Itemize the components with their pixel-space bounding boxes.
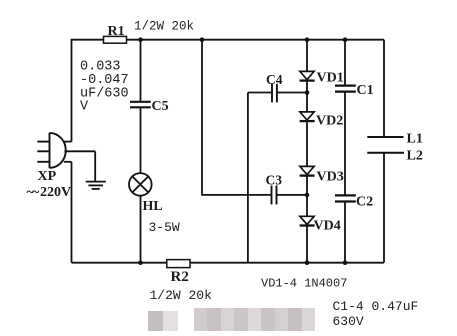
- wire diode chain seg5: [306, 226, 308, 263]
- node VD3-VD4 C3 junction: [305, 193, 310, 198]
- lamp-socket contact L2: [367, 152, 404, 154]
- node bottom C2 junction: [343, 260, 348, 265]
- wire left vertical lower: [71, 162, 73, 263]
- svg-text:C4: C4: [266, 72, 283, 87]
- watermark mosaic strip: [148, 311, 163, 331]
- svg-text:VD1-4 1N4007: VD1-4 1N4007: [261, 277, 347, 291]
- capacitor C2: [335, 195, 356, 201]
- node bottom lamp junction: [138, 260, 143, 265]
- svg-text:L1: L1: [407, 131, 423, 146]
- wire diode chain seg2: [306, 81, 308, 112]
- svg-text:220V: 220V: [40, 185, 71, 200]
- resistor R2: [167, 260, 190, 268]
- wire diode chain seg1: [306, 40, 308, 72]
- wire top bus: [72, 39, 385, 41]
- capacitor C5: [130, 102, 151, 108]
- lamp HL: [129, 173, 152, 196]
- capacitor C4: [272, 84, 277, 103]
- diode VD3: [300, 166, 315, 175]
- svg-text:C1-4 0.47uF: C1-4 0.47uF: [333, 299, 419, 314]
- wire C1 branch upper: [344, 40, 346, 86]
- wire C5 branch upper: [140, 40, 142, 102]
- svg-text:VD2: VD2: [316, 114, 343, 129]
- wire C5 to lamp: [140, 108, 142, 174]
- wire C4 right to diode node: [277, 92, 307, 94]
- node top C5 junction: [138, 37, 143, 42]
- wire bottom bus: [72, 262, 385, 264]
- wire L2 to bottom: [383, 153, 385, 263]
- capacitor C3: [272, 186, 277, 205]
- wire left vertical upper: [71, 39, 73, 142]
- diode VD2: [300, 112, 315, 121]
- svg-text:R1: R1: [108, 24, 125, 39]
- diode VD1: [300, 71, 315, 80]
- node top diode junction: [305, 37, 310, 42]
- wire C1 to C2: [344, 92, 346, 195]
- node VD1-VD2 C4 junction: [305, 90, 310, 95]
- svg-text:VD3: VD3: [317, 170, 344, 185]
- svg-text:1/2W 20k: 1/2W 20k: [134, 20, 194, 34]
- plug XP: [37, 133, 65, 168]
- wire diode chain seg4: [306, 176, 308, 216]
- wire C4 left vertical down: [247, 93, 249, 263]
- svg-text:C2: C2: [356, 195, 373, 210]
- wire lamp to bottom: [140, 196, 142, 263]
- wire middle vertical to C3: [202, 40, 271, 195]
- svg-text:L2: L2: [407, 148, 423, 163]
- svg-text:V: V: [80, 100, 89, 115]
- svg-text:XP: XP: [38, 169, 57, 184]
- wire plug top pin link: [64, 141, 72, 143]
- svg-text:VD4: VD4: [314, 219, 341, 234]
- wire ground link from plug: [65, 150, 96, 152]
- wire C3 right to diode node: [277, 194, 307, 196]
- wire right vertical upper to L1: [383, 40, 385, 137]
- svg-text:HL: HL: [143, 199, 163, 214]
- lamp-socket contact L1: [367, 136, 403, 138]
- capacitor C1: [335, 86, 356, 92]
- svg-text:VD1: VD1: [317, 70, 344, 85]
- value label C5 rating block: [80, 60, 129, 115]
- node top middle junction: [200, 37, 205, 42]
- svg-text:R2: R2: [171, 269, 189, 285]
- svg-text:1/2W 20k: 1/2W 20k: [150, 288, 213, 303]
- wire plug bottom pin link: [64, 161, 72, 163]
- resistor R1: [104, 36, 127, 43]
- node top C1 junction: [343, 37, 348, 42]
- svg-text:C5: C5: [152, 99, 169, 114]
- wire C2 to bottom: [344, 202, 346, 263]
- svg-text:C1: C1: [357, 83, 374, 98]
- wire diode chain seg3: [306, 121, 308, 166]
- diode VD4: [300, 216, 315, 225]
- svg-text:~~: ~~: [27, 185, 40, 200]
- node bottom diode junction: [305, 260, 310, 265]
- ground: [86, 151, 106, 189]
- svg-text:3-5W: 3-5W: [149, 220, 180, 235]
- wire C4 left horizontal: [248, 92, 271, 94]
- svg-text:C3: C3: [266, 173, 283, 188]
- svg-text:630V: 630V: [333, 314, 364, 329]
